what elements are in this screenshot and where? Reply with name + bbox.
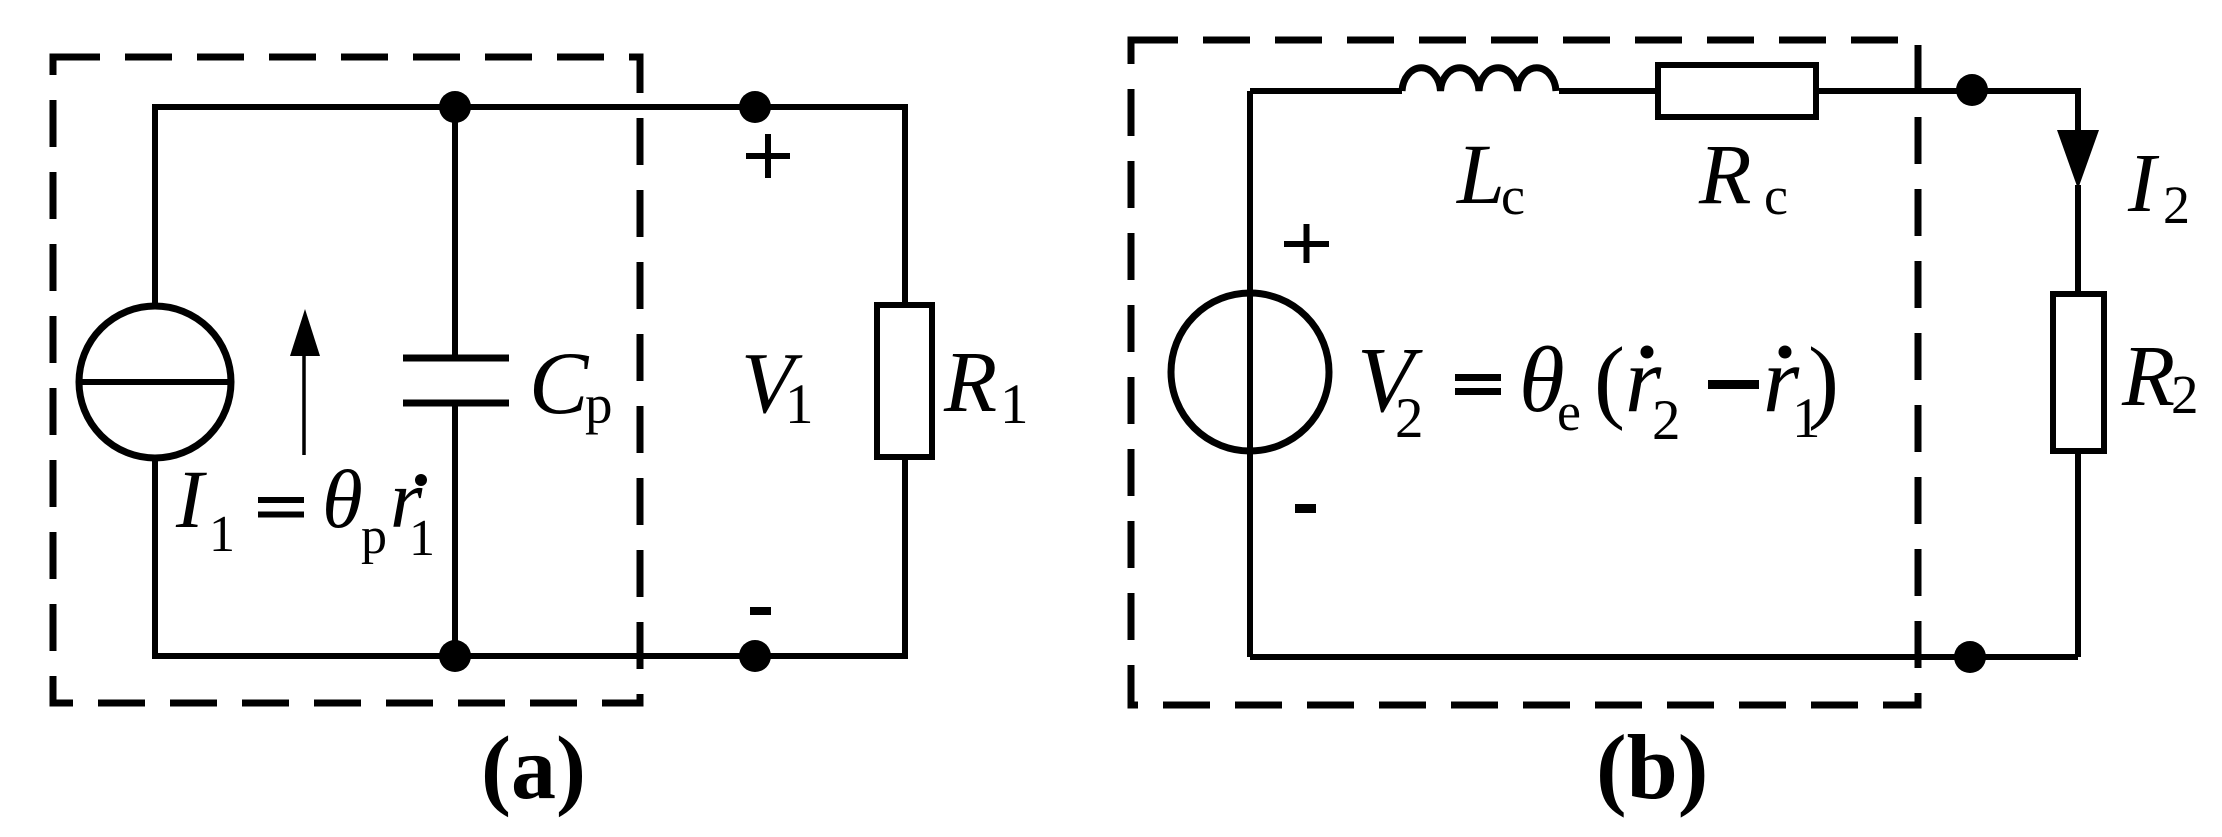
svg-text:I: I <box>2127 137 2160 230</box>
svg-text:R: R <box>1698 126 1752 222</box>
svg-text:(a): (a) <box>481 719 586 818</box>
svg-text:1: 1 <box>209 506 235 563</box>
svg-text:2: 2 <box>2163 175 2190 235</box>
svg-text:R: R <box>943 333 997 430</box>
svg-text:c: c <box>1764 166 1788 226</box>
svg-text:p: p <box>585 374 613 435</box>
svg-text:(b): (b) <box>1596 716 1708 818</box>
svg-text:c: c <box>1501 166 1525 226</box>
svg-text:p: p <box>361 508 387 565</box>
svg-text:L: L <box>1455 126 1505 222</box>
svg-text:I: I <box>175 453 207 545</box>
svg-text:1: 1 <box>409 510 435 567</box>
svg-text:e: e <box>1557 382 1581 442</box>
svg-text:2: 2 <box>1652 389 1681 452</box>
svg-text:1: 1 <box>1000 373 1029 436</box>
svg-text:R: R <box>2121 327 2175 424</box>
svg-text:): ) <box>1808 329 1839 432</box>
svg-text:2: 2 <box>2171 364 2199 425</box>
svg-text:2: 2 <box>1395 387 1424 450</box>
svg-text:1: 1 <box>785 373 814 436</box>
svg-text:θ: θ <box>322 453 363 545</box>
svg-text:(: ( <box>1594 329 1625 432</box>
svg-text:C: C <box>529 335 590 433</box>
